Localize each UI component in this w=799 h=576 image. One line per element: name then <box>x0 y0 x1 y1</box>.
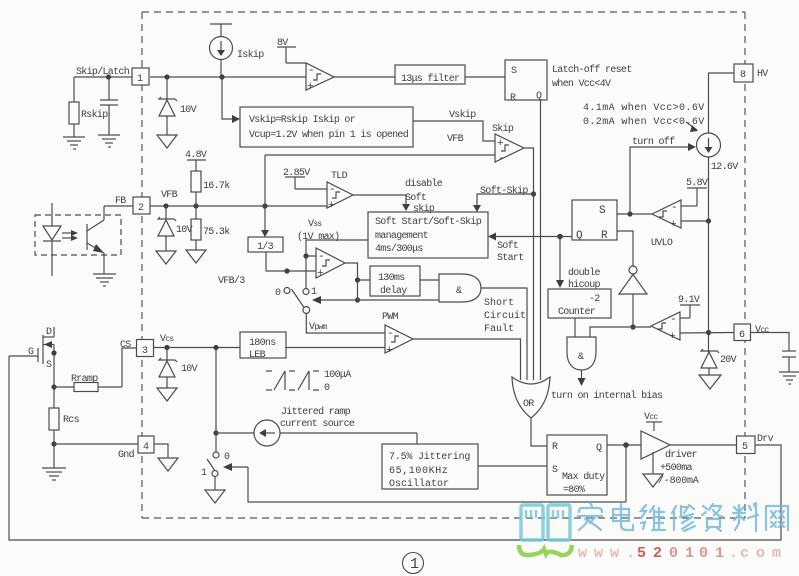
pin 4 box <box>138 436 154 453</box>
svg-text:-: - <box>318 251 325 263</box>
svg-text:=80%: =80% <box>563 485 585 496</box>
resistor 16.7k <box>191 171 201 206</box>
svg-text:Soft: Soft <box>405 192 426 204</box>
svg-text:delay: delay <box>380 285 407 297</box>
svg-text:10V: 10V <box>181 364 198 375</box>
wire latch S to UVLO <box>617 213 652 215</box>
svg-text:-: - <box>387 328 394 340</box>
arrow annotation to source <box>686 122 698 132</box>
svg-text:Vcup=1.2V when pin 1 is opened: Vcup=1.2V when pin 1 is opened <box>249 129 409 141</box>
svg-text:Max duty: Max duty <box>562 471 605 483</box>
svg-text:hicoup: hicoup <box>568 279 601 291</box>
node soft start counter tap <box>557 234 563 240</box>
svg-text:-: - <box>498 153 505 165</box>
optocoupler dashed box <box>35 215 121 255</box>
wire comp2 plus <box>680 332 734 335</box>
switch drv lever <box>207 459 215 470</box>
ground Rskip <box>63 137 85 149</box>
node turn-off tap <box>627 211 632 216</box>
node source-Rramp <box>51 384 56 389</box>
svg-text:OR: OR <box>523 399 534 410</box>
svg-text:&: & <box>578 352 584 363</box>
svg-text:S: S <box>552 465 558 476</box>
node soft-skip tap <box>531 191 536 196</box>
circled figure number 1 <box>403 553 424 574</box>
wire Vss comp output to 130ms delay <box>345 263 370 280</box>
svg-text:S: S <box>46 360 52 371</box>
svg-text:R: R <box>552 442 558 453</box>
svg-text:4.1mA when Vcc>0.6V: 4.1mA when Vcc>0.6V <box>583 102 705 114</box>
wire vss tap to contact1 <box>305 256 307 288</box>
svg-text:4ms/300μs: 4ms/300μs <box>375 243 423 255</box>
8V rail for latch comparator <box>277 47 306 63</box>
svg-text:HV: HV <box>757 69 768 80</box>
wire FB external <box>104 205 133 207</box>
svg-text:8V: 8V <box>277 38 288 49</box>
pin 8 box <box>734 64 753 82</box>
resistor 75.3k <box>191 206 201 250</box>
5.8V rail <box>681 188 707 206</box>
capacitor C-skip <box>100 77 118 135</box>
output latch Max duty box <box>547 435 607 495</box>
svg-text:75.3k: 75.3k <box>203 226 230 238</box>
node FB vfb tap <box>262 203 267 208</box>
svg-text:Fault: Fault <box>484 323 514 335</box>
wire Vcc vertical <box>708 157 710 352</box>
op-amp Vss comparator <box>316 248 345 278</box>
180ns LEB box <box>240 332 286 358</box>
wire node to pin4 <box>54 443 138 445</box>
switch common pwm <box>303 307 310 314</box>
wire delay to AND <box>420 279 439 281</box>
watermark logo book icon <box>521 505 570 540</box>
resistor Rcs <box>49 387 59 444</box>
svg-text:S: S <box>511 66 517 77</box>
13us filter box <box>395 65 465 84</box>
ramp waveform symbol <box>266 371 319 390</box>
node Rcs-gnd <box>51 441 56 446</box>
svg-text:+: + <box>669 331 676 343</box>
switch drv contact 1 <box>212 471 218 477</box>
svg-text:Vskip=Rskip Iskip or: Vskip=Rskip Iskip or <box>249 114 356 126</box>
resistor Rskip <box>69 77 79 137</box>
MOSFET Q1 <box>9 327 54 387</box>
pin 3 box <box>137 340 154 357</box>
watermark logo green book base <box>519 545 572 555</box>
svg-text:6: 6 <box>739 330 745 341</box>
wire OR out to latch R <box>531 418 547 446</box>
svg-text:-2: -2 <box>589 294 600 305</box>
svg-text:Soft Start/Soft-Skip: Soft Start/Soft-Skip <box>375 216 482 228</box>
svg-text:20V: 20V <box>720 355 737 366</box>
management box Soft Start/Soft-Skip <box>368 212 488 258</box>
wire Soft-Skip to management box <box>477 194 534 206</box>
LED opto <box>43 203 61 276</box>
svg-text:Q: Q <box>576 230 583 242</box>
svg-text:-: - <box>671 202 678 214</box>
wire AND out down to OR <box>481 288 527 380</box>
svg-text:FB: FB <box>115 196 126 207</box>
svg-text:-: - <box>670 314 677 326</box>
op-amp Vcc comparator <box>651 312 680 340</box>
wire Vskip to skip comparator <box>413 121 495 141</box>
pin 6 box <box>734 324 751 341</box>
wire Drv to gate loop <box>9 356 781 540</box>
svg-text:7.5% Jittering: 7.5% Jittering <box>389 451 470 463</box>
capacitor Vcc <box>751 333 797 373</box>
wire counter to AND2 <box>574 318 576 337</box>
wire PWM output to OR <box>413 339 521 380</box>
node source-body <box>51 350 56 355</box>
svg-text:Counter: Counter <box>558 307 596 318</box>
svg-text:9.1V: 9.1V <box>678 295 700 306</box>
wire Vcs down to jitter source <box>215 348 217 434</box>
pin 5 box <box>737 436 756 454</box>
svg-text:management: management <box>375 231 428 242</box>
wire latch R from inverter <box>617 231 633 266</box>
svg-text:8: 8 <box>740 70 746 81</box>
switch drv contact 0 <box>213 433 219 458</box>
svg-text:5: 5 <box>742 442 748 453</box>
svg-text:S: S <box>599 205 606 217</box>
svg-text:+: + <box>670 219 677 231</box>
svg-text:G: G <box>28 347 34 358</box>
svg-text:/-800mA: /-800mA <box>658 475 699 487</box>
zener D4 20V <box>701 349 719 375</box>
inverter hiccup <box>619 266 647 327</box>
arrow drv control <box>223 463 626 502</box>
node FB divider <box>193 203 198 208</box>
svg-text:disable: disable <box>405 178 443 190</box>
opto light arrows <box>62 230 78 241</box>
svg-text:13μs filter: 13μs filter <box>401 73 460 85</box>
svg-text:1: 1 <box>410 556 419 573</box>
svg-text:0: 0 <box>224 452 230 463</box>
SR latch U3 (restart) <box>572 200 617 240</box>
svg-text:Vskip: Vskip <box>449 109 476 121</box>
ground C-skip <box>98 135 120 147</box>
current source jittered ramp <box>216 420 417 446</box>
wire arrow to pwm switch <box>320 299 358 301</box>
wire 1/3 to Vss comparator <box>266 252 316 271</box>
svg-text:Short: Short <box>484 297 514 309</box>
IC boundary dashed border <box>142 12 745 518</box>
svg-text:R: R <box>510 93 516 104</box>
ground at Rcs <box>42 444 66 480</box>
svg-text:+: + <box>307 81 314 93</box>
9.1V rail <box>680 305 700 318</box>
ground Vcc cap <box>779 372 799 384</box>
svg-text:Drv: Drv <box>757 434 774 445</box>
svg-text:130ms: 130ms <box>378 273 405 284</box>
svg-text:turn off: turn off <box>632 136 675 148</box>
current source startup 12.6V <box>697 133 721 157</box>
AND gate hiccup <box>567 337 596 370</box>
svg-text:12.6V: 12.6V <box>711 162 738 173</box>
svg-text:1: 1 <box>311 287 317 298</box>
svg-text:+: + <box>497 138 504 150</box>
wire comparator to 13us filter <box>334 76 395 78</box>
watermark url <box>578 545 781 562</box>
wire comp2 to AND2 <box>590 327 651 337</box>
ground arrow driver <box>643 452 663 487</box>
ground arrow at pin4 <box>154 444 178 471</box>
ground arrow at D3 <box>157 388 177 401</box>
wire pin2 to TLD <box>150 205 327 207</box>
node sc lower <box>355 297 360 302</box>
svg-text:UVLO: UVLO <box>651 238 673 249</box>
svg-text:5.8V: 5.8V <box>686 178 708 189</box>
wire Rramp to CS pin <box>122 348 137 387</box>
op-amp TLD comparator <box>327 182 353 208</box>
switch contact 1 pwm <box>303 289 309 295</box>
svg-text:0: 0 <box>275 288 281 299</box>
svg-text:Start: Start <box>497 253 524 264</box>
node jitter <box>213 430 218 435</box>
svg-text:2.85V: 2.85V <box>283 168 310 179</box>
svg-text:Soft: Soft <box>497 240 518 252</box>
wire skip output down to OR <box>524 148 534 380</box>
svg-text:Iskip: Iskip <box>237 49 264 61</box>
wire Iskip node to infobox arrow <box>222 77 232 119</box>
svg-text:10V: 10V <box>180 105 197 116</box>
wire Vss to comparator minus <box>306 240 368 256</box>
svg-text:1: 1 <box>137 74 143 85</box>
ground arrow at D4 <box>699 375 721 389</box>
ground arrow at D2 <box>156 251 176 264</box>
svg-text:4.8V: 4.8V <box>185 150 207 161</box>
node driver feedback <box>623 442 629 448</box>
svg-text:VFB/3: VFB/3 <box>218 275 245 287</box>
svg-text:CS: CS <box>120 340 131 351</box>
svg-text:Q: Q <box>536 91 542 102</box>
wire TLD output to management <box>353 195 406 205</box>
zener D2 10V at FB <box>158 206 176 251</box>
svg-text:double: double <box>568 267 601 279</box>
wire Vpwm to PWM comparator <box>306 314 385 334</box>
wire soft start arrow <box>494 236 572 238</box>
wire LEB to PWM plus <box>286 347 385 349</box>
svg-text:when Vcc<4V: when Vcc<4V <box>552 78 611 90</box>
transistor opto <box>87 206 104 274</box>
svg-text:+500ma: +500ma <box>660 463 693 474</box>
resistor Rramp <box>54 383 122 392</box>
node inverter-comp out <box>630 324 635 329</box>
svg-text:Vpwm: Vpwm <box>309 322 328 333</box>
wire feedback down <box>625 445 627 502</box>
node pin1-ext junction <box>164 74 169 79</box>
wire Skip/Latch external <box>74 76 133 78</box>
ground arrow at 75.3k <box>186 250 206 263</box>
wire FB down to 1/3 <box>264 206 266 231</box>
node Vcs zener <box>164 345 169 350</box>
watermark chinese characters <box>578 503 788 531</box>
OR gate <box>512 377 550 418</box>
op-amp skip comparator <box>495 134 524 162</box>
svg-text:180ns: 180ns <box>249 338 276 349</box>
svg-text:+: + <box>386 345 393 357</box>
svg-text:Soft-Skip: Soft-Skip <box>480 185 528 197</box>
svg-text:TLD: TLD <box>331 171 348 182</box>
wire pin1 to comparator <box>150 76 306 78</box>
svg-text:driver: driver <box>665 449 698 461</box>
4.8V rail <box>187 160 206 171</box>
svg-text:+: + <box>328 200 335 212</box>
svg-text:turn on internal bias: turn on internal bias <box>551 390 663 402</box>
svg-text:Skip/Latch: Skip/Latch <box>76 66 130 78</box>
svg-text:0.2mA when Vcc<0.6V: 0.2mA when Vcc<0.6V <box>583 116 705 128</box>
pin 1 box <box>132 68 149 85</box>
node Vcc pin6 <box>706 330 711 335</box>
switch contact 0 pwm <box>284 288 290 294</box>
current source Iskip <box>210 24 233 77</box>
info box Vskip equation <box>240 107 413 147</box>
1/3 divider box <box>248 237 283 252</box>
node Iskip junction <box>219 74 224 79</box>
svg-text:Jittered ramp: Jittered ramp <box>281 406 351 418</box>
svg-text:3: 3 <box>142 346 148 357</box>
node delay input <box>355 277 360 282</box>
svg-text:current source: current source <box>280 419 355 430</box>
svg-text:Rskip: Rskip <box>81 109 108 121</box>
svg-text:Vcc: Vcc <box>644 412 658 423</box>
-2 counter box <box>548 289 611 318</box>
svg-text:1/3: 1/3 <box>257 241 274 253</box>
svg-text:-: - <box>308 65 315 77</box>
svg-text:D: D <box>46 327 52 338</box>
node Vcs ramp tap <box>213 345 218 350</box>
wire UVLO plus to Vcc line <box>681 220 709 222</box>
oscillator box <box>382 444 478 489</box>
wire driver to pin5 <box>670 444 736 446</box>
wire counter input <box>559 237 561 282</box>
svg-text:-: - <box>329 184 336 196</box>
wire lower AND input <box>358 280 440 300</box>
op-amp UVLO comparator <box>652 200 681 228</box>
wire VFB up-over to skip comp <box>264 155 266 206</box>
node UVLO vcc <box>706 218 711 223</box>
svg-text:0: 0 <box>324 383 330 394</box>
zener D1 10V at pin1 <box>159 77 177 135</box>
svg-text:Gnd: Gnd <box>118 449 135 461</box>
svg-text:Skip: Skip <box>492 123 514 135</box>
wire latch Q to driver <box>607 444 641 446</box>
pin 2 box <box>133 197 150 214</box>
130ms delay box <box>370 266 420 296</box>
SR latch U2 <box>505 60 547 100</box>
svg-text:&: & <box>456 286 462 297</box>
svg-text:skip: skip <box>413 203 435 215</box>
ground arrow below switch <box>205 477 225 504</box>
svg-text:Rramp: Rramp <box>71 374 98 385</box>
wire turn off <box>630 147 688 214</box>
svg-text:R: R <box>601 230 608 242</box>
svg-text:Q: Q <box>596 443 602 454</box>
svg-text:16.7k: 16.7k <box>203 180 230 192</box>
svg-text:PWM: PWM <box>382 312 399 323</box>
svg-text:10V: 10V <box>176 225 193 236</box>
svg-text:LEB: LEB <box>249 350 266 361</box>
zener D3 10V at CS <box>159 348 177 389</box>
svg-text:VFB: VFB <box>161 190 178 201</box>
node switch0 tap <box>284 268 289 273</box>
svg-text:(1V max): (1V max) <box>297 231 339 243</box>
svg-text:Rcs: Rcs <box>63 415 80 426</box>
node Vss switch tap <box>303 253 308 258</box>
svg-text:Vcc: Vcc <box>755 325 769 336</box>
svg-text:4: 4 <box>143 442 149 453</box>
switch lever pwm <box>292 289 305 308</box>
node FB zener <box>163 203 168 208</box>
svg-text:1: 1 <box>201 468 207 479</box>
wire VFB to skip comparator <box>265 154 495 156</box>
ground arrow at D1 <box>157 135 177 148</box>
wire HV to startup source <box>709 73 735 133</box>
svg-text:Oscillator: Oscillator <box>389 478 449 490</box>
wire latch Q down to OR <box>540 100 542 380</box>
2.85V rail <box>285 177 327 189</box>
wire pin3 to LEB <box>154 347 241 349</box>
svg-text:Vss: Vss <box>308 219 322 230</box>
node skip-latch cap junction <box>106 74 111 79</box>
wire osc to latch S <box>478 465 547 467</box>
svg-text:+: + <box>317 268 324 280</box>
driver amplifier <box>641 431 670 459</box>
arrow turn on internal bias <box>578 370 586 386</box>
wire filter to latch S <box>465 76 505 78</box>
svg-text:Vcs: Vcs <box>160 334 174 345</box>
svg-text:Circuit: Circuit <box>484 310 526 322</box>
svg-text:2: 2 <box>138 203 144 214</box>
Vcc rail driver <box>646 422 662 431</box>
svg-text:100μA: 100μA <box>324 370 351 381</box>
svg-text:65,100KHz: 65,100KHz <box>389 466 448 477</box>
op-amp latch comparator U1 <box>306 63 334 90</box>
ground opto emitter <box>93 274 116 286</box>
op-amp PWM comparator <box>385 325 413 353</box>
svg-text:Latch-off reset: Latch-off reset <box>552 64 632 76</box>
svg-text:VFB: VFB <box>447 134 464 145</box>
AND gate short-circuit <box>439 274 481 302</box>
